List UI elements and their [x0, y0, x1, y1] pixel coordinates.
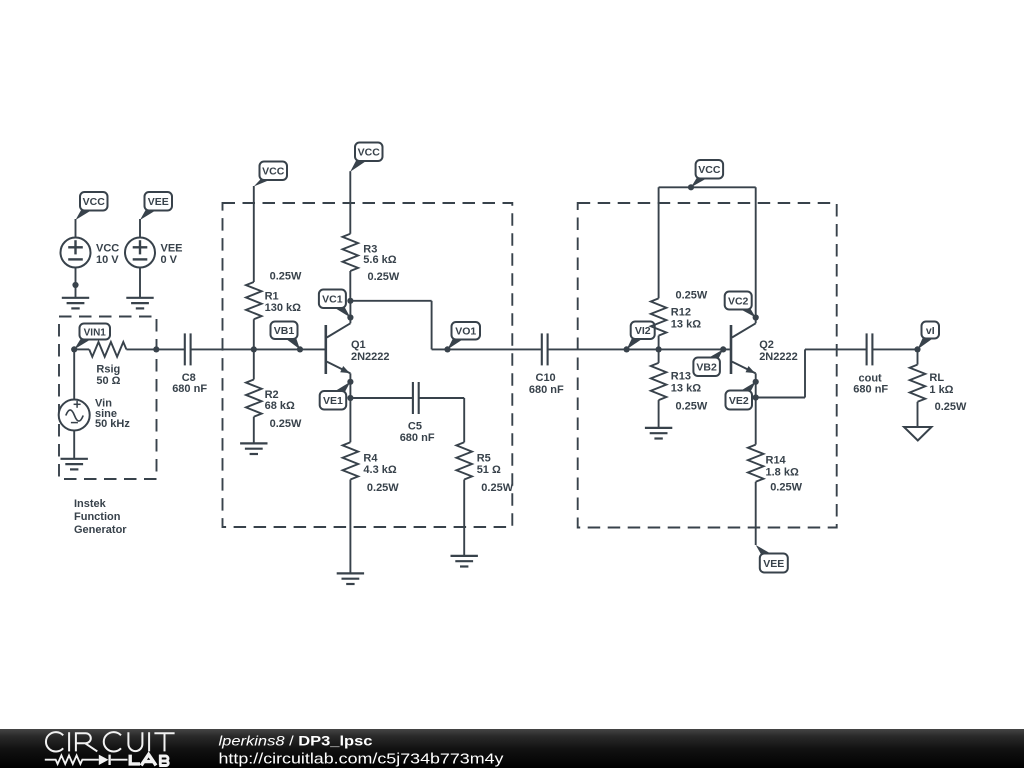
svg-text:0.25W: 0.25W [676, 401, 708, 413]
wire [74, 348, 89, 350]
svg-text:13 kΩ: 13 kΩ [671, 383, 701, 395]
svg-text:C5: C5 [408, 421, 422, 433]
wire [350, 397, 413, 399]
svg-text:50 kHz: 50 kHz [95, 418, 130, 430]
wire [349, 301, 351, 324]
wire [804, 349, 806, 397]
CircuitLab logo CIRCUIT (drawn letters) [46, 732, 175, 751]
svg-text:Generator: Generator [74, 524, 127, 536]
wire [349, 373, 351, 442]
svg-text:R4: R4 [363, 453, 378, 465]
svg-text:VI2: VI2 [635, 325, 651, 337]
resistor R3 5.6kΩ [343, 234, 359, 271]
svg-text:VC2: VC2 [728, 295, 749, 307]
capacitor C8 [184, 333, 186, 365]
svg-text:5.6 kΩ: 5.6 kΩ [363, 254, 396, 266]
resistor Rsig 50Ω [89, 342, 126, 357]
svg-text:R5: R5 [477, 453, 491, 465]
wire [253, 417, 255, 444]
svg-text:Function: Function [74, 511, 121, 523]
wire [73, 431, 75, 459]
svg-text:VB1: VB1 [274, 325, 295, 337]
ground [337, 572, 364, 574]
node flag VE2 [726, 382, 756, 410]
svg-text:0.25W: 0.25W [368, 271, 400, 283]
node junction [656, 346, 662, 352]
logo resistor squiggle [45, 755, 99, 764]
logo LAB (drawn) [130, 754, 168, 765]
ground [451, 555, 478, 557]
capacitor C10 680nF [541, 333, 543, 365]
svg-text:VCC: VCC [358, 147, 381, 159]
capacitor cout 680nF [866, 333, 868, 365]
svg-text:0 V: 0 V [161, 254, 178, 266]
wire [431, 301, 433, 350]
node junction [347, 395, 353, 401]
wire [755, 187, 757, 323]
node VC2 pin junction [753, 314, 759, 320]
ground [61, 458, 88, 460]
svg-text:0.25W: 0.25W [935, 401, 967, 413]
svg-text:2N2222: 2N2222 [351, 351, 390, 363]
wire [432, 348, 541, 350]
svg-text:68 kΩ: 68 kΩ [265, 400, 295, 412]
svg-text:VIN1: VIN1 [84, 327, 107, 338]
capacitor C5 680nF [412, 382, 414, 414]
voltage source VEE 0V [125, 238, 155, 268]
svg-text:VEE: VEE [161, 243, 183, 255]
node VC1 pin junction [347, 314, 353, 320]
node flag VE1 [320, 382, 351, 410]
resistor R4 4.3kΩ [343, 442, 359, 479]
stage 2 dashed box [578, 203, 837, 528]
wire [419, 397, 465, 399]
wire [463, 480, 465, 556]
node VE1 pin junction [347, 379, 353, 385]
svg-text:R1: R1 [265, 291, 279, 303]
wire [658, 336, 660, 363]
node junction [251, 346, 257, 352]
wire [349, 171, 351, 234]
resistor R5 51Ω [456, 442, 472, 479]
svg-text:Q1: Q1 [351, 339, 366, 351]
svg-text:VB2: VB2 [696, 362, 717, 374]
node junction [753, 394, 759, 400]
svg-text:0.25W: 0.25W [770, 482, 802, 494]
wire [755, 482, 757, 545]
wire [350, 300, 431, 302]
logo diode [99, 755, 109, 765]
svg-text:1.8 kΩ: 1.8 kΩ [766, 467, 799, 479]
node junction [688, 184, 694, 190]
svg-text:VCC: VCC [96, 243, 119, 255]
resistor R14 1.8kΩ [748, 445, 764, 482]
resistor R2 68kΩ [246, 380, 262, 417]
transistor Q2 2N2222 [730, 325, 733, 374]
svg-text:680 nF: 680 nF [529, 384, 564, 396]
voltage source VCC 10V [61, 238, 91, 268]
node flag VO1 [448, 322, 481, 349]
node junction [153, 346, 159, 352]
svg-text:1 kΩ: 1 kΩ [929, 384, 953, 396]
node VO1 junction [444, 346, 450, 352]
svg-text:R12: R12 [671, 306, 691, 318]
wire [191, 348, 325, 350]
wire [73, 349, 75, 399]
svg-text:130 kΩ: 130 kΩ [265, 302, 302, 314]
wire [156, 348, 185, 350]
svg-text:VE1: VE1 [323, 395, 343, 407]
wire [658, 187, 660, 298]
svg-text:VCC: VCC [83, 196, 106, 208]
wire [126, 348, 156, 350]
svg-text:VO1: VO1 [455, 326, 476, 338]
svg-text:680 nF: 680 nF [400, 432, 435, 444]
chassis ground (triangle) [904, 427, 932, 441]
node flag VB2 [693, 349, 723, 376]
svg-text:Instek: Instek [74, 498, 107, 510]
resistor R13 13kΩ [651, 363, 667, 400]
power flag VCC (above R1) [254, 162, 287, 187]
node VB1 junction [297, 346, 303, 352]
node flag VB1 [271, 322, 301, 350]
svg-text:VCC: VCC [698, 164, 721, 176]
node VE2 pin junction [753, 379, 759, 385]
wire [253, 186, 255, 282]
svg-text:0.25W: 0.25W [270, 271, 302, 283]
node flag vI [918, 322, 940, 350]
power flag VEE (below R14) [756, 545, 788, 573]
wire [548, 348, 730, 350]
svg-text:VCC: VCC [262, 166, 285, 178]
svg-text:VE2: VE2 [729, 395, 749, 407]
node flag VIN1 [74, 324, 110, 350]
node flag VI2 [627, 322, 655, 350]
svg-text:VC1: VC1 [322, 294, 343, 306]
transistor Q1 2N2222 [324, 325, 327, 374]
wire [139, 219, 141, 238]
wire [349, 271, 351, 301]
power flag VCC (stage 2) [691, 160, 723, 187]
svg-text:vI: vI [926, 325, 935, 337]
wire [659, 186, 756, 188]
svg-text:680 nF: 680 nF [853, 384, 888, 396]
wire [917, 402, 919, 427]
svg-text:4.3 kΩ: 4.3 kΩ [363, 464, 396, 476]
ground [645, 427, 672, 429]
svg-text:50 Ω: 50 Ω [96, 375, 120, 387]
ground [240, 442, 267, 444]
resistor R12 13kΩ [651, 298, 667, 335]
svg-text:lperkins8 / DP3_lpsc: lperkins8 / DP3_lpsc [219, 733, 373, 749]
wire [75, 219, 77, 238]
wire [756, 397, 805, 399]
svg-text:VEE: VEE [763, 558, 784, 570]
resistor R1 130kΩ [246, 282, 262, 319]
node VI2 junction [624, 346, 630, 352]
svg-text:51 Ω: 51 Ω [477, 464, 501, 476]
svg-text:0.25W: 0.25W [481, 482, 513, 494]
ground [126, 297, 153, 299]
wire [872, 348, 917, 350]
svg-text:RL: RL [929, 372, 944, 384]
wire [253, 319, 255, 379]
footer bar [0, 729, 1024, 768]
svg-text:R14: R14 [766, 455, 787, 467]
svg-text:R2: R2 [265, 389, 279, 401]
power flag VCC (left supply) [76, 192, 108, 220]
wire [658, 400, 660, 428]
ground [62, 297, 89, 299]
svg-text:0.25W: 0.25W [367, 482, 399, 494]
wire [805, 348, 867, 350]
wire [917, 349, 919, 364]
wire [75, 268, 77, 298]
svg-text:C10: C10 [536, 372, 556, 384]
wire [139, 268, 141, 298]
node VIN1 junction [71, 346, 77, 352]
node flag VC2 [725, 292, 756, 318]
wire [463, 398, 465, 442]
function generator dashed box [59, 317, 157, 480]
svg-text:13 kΩ: 13 kΩ [671, 319, 701, 331]
svg-text:Q2: Q2 [759, 339, 774, 351]
power flag VCC (above R3) [350, 143, 382, 172]
node vI junction [914, 346, 920, 352]
svg-text:0.25W: 0.25W [270, 418, 302, 430]
node junction [72, 282, 78, 288]
stage 1 dashed box [223, 203, 513, 527]
svg-text:10 V: 10 V [96, 254, 119, 266]
svg-text:R13: R13 [671, 371, 691, 383]
node junction [347, 298, 353, 304]
wire [755, 373, 757, 444]
power flag VEE (left supply) [140, 192, 172, 220]
svg-text:Rsig: Rsig [96, 364, 120, 376]
resistor RL 1kΩ [910, 365, 926, 402]
svg-text:680 nF: 680 nF [172, 383, 207, 395]
node flag VC1 [319, 290, 351, 318]
svg-text:0.25W: 0.25W [676, 289, 708, 301]
svg-text:VEE: VEE [148, 196, 169, 208]
source Vin sine [59, 400, 90, 431]
node VB2 junction [720, 346, 726, 352]
wire [349, 480, 351, 574]
svg-text:2N2222: 2N2222 [759, 351, 798, 363]
svg-text:http://circuitlab.com/c5j734b7: http://circuitlab.com/c5j734b773m4y [219, 752, 505, 768]
